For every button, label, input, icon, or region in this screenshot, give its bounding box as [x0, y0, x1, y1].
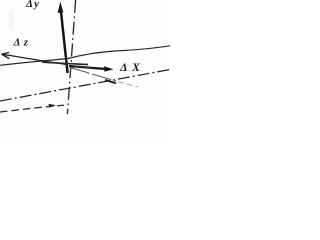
svg-text:Δz: Δz: [13, 37, 29, 49]
dashed short lower-left line: [0, 105, 64, 112]
dash-dot vertical axis: [67, 0, 75, 114]
vector arrow dY shaft: [61, 11, 68, 73]
upper trajectory line: [0, 46, 170, 66]
vector arrow dY head: [58, 2, 64, 13]
dark junction blob where lines cross: [105, 80, 116, 83]
vector dX head: [104, 66, 114, 72]
faint line from origin to lower right: [70, 68, 116, 82]
bundle scribble strokes near origin: [42, 62, 88, 64]
vector dZ shaft: [3, 54, 67, 64]
vector dX shaft: [69, 66, 107, 69]
svg-text:Δy: Δy: [25, 0, 39, 10]
faint scan smudge top-left: [8, 12, 15, 28]
dash-dot lower trajectory: [0, 70, 170, 102]
vector dZ head: [2, 53, 10, 59]
small arrowhead on dashed line: [49, 104, 57, 108]
svg-text:ΔX: ΔX: [119, 60, 141, 74]
